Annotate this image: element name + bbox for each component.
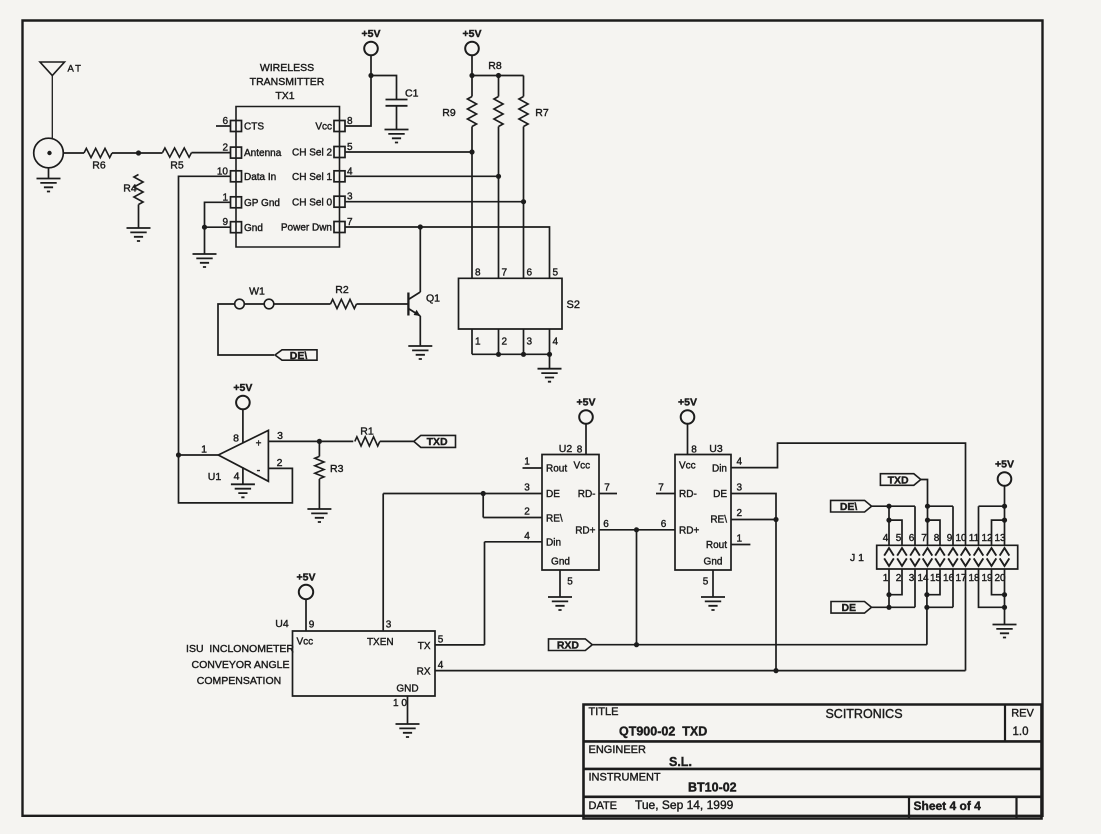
svg-text:6: 6 [527, 268, 533, 279]
svg-text:AT: AT [68, 64, 83, 75]
svg-text:S2: S2 [567, 299, 580, 311]
svg-text:RX: RX [417, 667, 431, 678]
svg-text:Rout: Rout [546, 464, 567, 475]
svg-text:4: 4 [883, 533, 889, 544]
svg-text:U1: U1 [208, 471, 222, 483]
svg-text:R7: R7 [535, 107, 549, 119]
svg-text:QT900-02 TXD: QT900-02 TXD [619, 725, 707, 739]
svg-text:W1: W1 [249, 286, 265, 298]
svg-text:INSTRUMENT: INSTRUMENT [589, 772, 661, 784]
svg-text:CONVEYOR ANGLE: CONVEYOR ANGLE [191, 659, 289, 671]
svg-text:4: 4 [234, 471, 240, 483]
svg-text:2: 2 [896, 573, 902, 584]
svg-text:2: 2 [737, 508, 743, 519]
svg-text:U4: U4 [275, 618, 289, 630]
svg-text:3: 3 [909, 573, 915, 584]
svg-text:DATE: DATE [589, 800, 618, 812]
svg-text:U2: U2 [559, 443, 573, 455]
svg-text:2: 2 [502, 337, 508, 348]
svg-text:R9: R9 [442, 107, 456, 119]
svg-text:ISU INCLONOMETER: ISU INCLONOMETER [186, 643, 294, 655]
svg-text:+5V: +5V [297, 571, 316, 583]
svg-text:2: 2 [524, 507, 530, 518]
svg-text:14: 14 [917, 573, 929, 584]
svg-text:TRANSMITTER: TRANSMITTER [250, 76, 325, 88]
svg-text:3: 3 [524, 483, 530, 494]
svg-text:+: + [256, 439, 262, 450]
svg-text:8: 8 [475, 268, 481, 279]
svg-text:RD+: RD+ [575, 526, 595, 537]
svg-text:2: 2 [222, 143, 228, 154]
svg-text:3: 3 [737, 483, 743, 494]
svg-text:RXD: RXD [557, 640, 580, 652]
svg-text:7: 7 [604, 483, 610, 494]
svg-text:Vcc: Vcc [574, 461, 591, 472]
svg-text:RE\: RE\ [710, 514, 727, 525]
svg-text:10: 10 [955, 533, 967, 544]
svg-text:4: 4 [524, 531, 530, 542]
svg-text:CH Sel 2: CH Sel 2 [292, 148, 332, 159]
svg-text:3: 3 [386, 620, 392, 631]
svg-text:DE: DE [841, 602, 856, 614]
svg-text:R6: R6 [92, 160, 106, 172]
svg-text:TITLE: TITLE [589, 706, 619, 718]
svg-text:5: 5 [553, 268, 559, 279]
svg-text:GND: GND [396, 684, 418, 695]
svg-text:+5V: +5V [362, 28, 381, 40]
svg-text:+5V: +5V [463, 28, 482, 40]
svg-text:1: 1 [883, 573, 889, 584]
svg-text:-: - [257, 465, 261, 477]
svg-text:CH Sel 1: CH Sel 1 [292, 172, 332, 183]
svg-text:2: 2 [277, 457, 283, 469]
svg-text:Vcc: Vcc [315, 122, 332, 133]
svg-text:7: 7 [921, 533, 927, 544]
svg-text:9: 9 [309, 620, 315, 631]
svg-text:Power Dwn: Power Dwn [281, 223, 332, 234]
svg-text:DE: DE [546, 489, 560, 500]
svg-text:RE\: RE\ [546, 513, 563, 524]
svg-text:8: 8 [691, 445, 697, 456]
svg-text:Q1: Q1 [426, 293, 440, 305]
svg-text:DE\: DE\ [290, 350, 308, 362]
svg-text:DE: DE [713, 489, 727, 500]
svg-text:3: 3 [527, 337, 533, 348]
svg-text:4: 4 [438, 660, 444, 671]
svg-text:Din: Din [712, 464, 727, 475]
svg-text:6: 6 [661, 519, 667, 530]
svg-text:Antenna: Antenna [244, 148, 282, 159]
svg-text:R4: R4 [123, 183, 137, 195]
svg-text:TXD: TXD [888, 474, 909, 486]
svg-text:Sheet 4 of 4: Sheet 4 of 4 [914, 799, 982, 813]
svg-text:Din: Din [546, 538, 561, 549]
svg-text:Data In: Data In [244, 172, 276, 183]
svg-text:1: 1 [201, 444, 207, 456]
svg-text:S.L.: S.L. [669, 755, 692, 769]
svg-text:TXD: TXD [427, 436, 448, 448]
svg-text:REV: REV [1011, 708, 1034, 720]
svg-text:Gnd: Gnd [704, 557, 723, 568]
svg-text:Gnd: Gnd [551, 557, 570, 568]
svg-text:ENGINEER: ENGINEER [589, 744, 647, 756]
svg-text:8: 8 [934, 533, 940, 544]
svg-text:RD-: RD- [679, 489, 697, 500]
svg-text:5: 5 [896, 533, 902, 544]
svg-text:GP Gnd: GP Gnd [244, 198, 280, 209]
svg-text:R1: R1 [360, 426, 374, 438]
svg-text:5: 5 [703, 577, 709, 588]
svg-text:Vcc: Vcc [679, 461, 696, 472]
svg-text:+5V: +5V [995, 459, 1014, 471]
svg-text:Vcc: Vcc [297, 637, 314, 648]
svg-text:WIRELESS: WIRELESS [260, 62, 314, 74]
svg-text:R2: R2 [335, 284, 349, 296]
svg-text:7: 7 [658, 483, 664, 494]
svg-text:1: 1 [524, 457, 530, 468]
svg-text:RD+: RD+ [679, 526, 699, 537]
svg-text:CH Sel 0: CH Sel 0 [292, 197, 332, 208]
svg-text:1: 1 [475, 337, 481, 348]
svg-text:9: 9 [947, 533, 953, 544]
svg-text:TX1: TX1 [275, 90, 294, 102]
svg-text:4: 4 [553, 337, 559, 348]
svg-text:CTS: CTS [244, 122, 264, 133]
svg-text:COMPENSATION: COMPENSATION [197, 675, 281, 687]
svg-text:DE\: DE\ [840, 501, 858, 513]
svg-text:R8: R8 [488, 60, 502, 72]
svg-text:6: 6 [909, 533, 915, 544]
svg-text:SCITRONICS: SCITRONICS [825, 707, 902, 721]
svg-text:R5: R5 [170, 160, 184, 172]
svg-text:+5V: +5V [233, 382, 252, 394]
svg-text:+5V: +5V [678, 397, 697, 409]
svg-text:RD-: RD- [578, 489, 596, 500]
svg-text:8: 8 [577, 445, 583, 456]
svg-text:5: 5 [438, 635, 444, 646]
svg-text:BT10-02: BT10-02 [688, 781, 737, 795]
svg-text:5: 5 [567, 577, 573, 588]
svg-text:6: 6 [603, 519, 609, 530]
svg-text:Tue, Sep 14, 1999: Tue, Sep 14, 1999 [635, 798, 734, 812]
svg-text:C1: C1 [405, 88, 419, 100]
svg-text:1.0: 1.0 [1013, 726, 1029, 738]
svg-text:R3: R3 [330, 463, 344, 475]
svg-text:Rout: Rout [706, 540, 727, 551]
svg-text:3: 3 [277, 430, 283, 442]
svg-text:1: 1 [737, 534, 743, 545]
svg-text:TX: TX [418, 641, 431, 652]
svg-text:4: 4 [737, 457, 743, 468]
svg-text:+5V: +5V [577, 397, 596, 409]
svg-text:Gnd: Gnd [244, 223, 263, 234]
svg-text:8: 8 [233, 433, 239, 445]
svg-text:17: 17 [955, 573, 967, 584]
svg-text:TXEN: TXEN [367, 637, 394, 648]
svg-text:U3: U3 [709, 443, 723, 455]
svg-text:J 1: J 1 [850, 552, 864, 564]
svg-text:1 0: 1 0 [393, 698, 407, 709]
svg-text:7: 7 [502, 268, 508, 279]
